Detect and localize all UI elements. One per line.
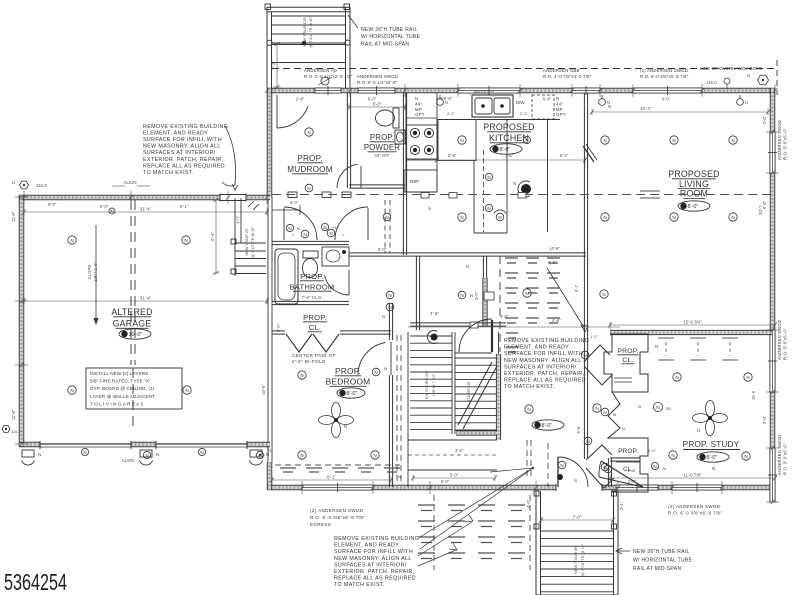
svg-text:2'-8": 2'-8" xyxy=(628,468,637,473)
svg-text:LINE OF OVERHANG ABOVE: LINE OF OVERHANG ABOVE xyxy=(700,66,762,71)
svg-text:N: N xyxy=(638,404,641,409)
svg-text:7'-0": 7'-0" xyxy=(573,515,582,520)
svg-text:D/W: D/W xyxy=(516,100,525,105)
svg-text:N: N xyxy=(307,186,310,191)
living room door-jamb marks on beam xyxy=(421,193,429,199)
svg-text:11'-8": 11'-8" xyxy=(11,211,16,222)
svg-text:8'-0": 8'-0" xyxy=(542,423,553,429)
svg-text:PROP.: PROP. xyxy=(370,133,394,142)
svg-text:(2) ANDERSEN SWGD: (2) ANDERSEN SWGD xyxy=(310,508,364,513)
svg-text:3'-0": 3'-0" xyxy=(276,323,281,332)
svg-text:N: N xyxy=(513,181,516,186)
svg-text:N: N xyxy=(415,96,418,101)
study bottom dim xyxy=(608,473,777,482)
svg-text:R.O. 6'-0 3/8"x6'-8 7/8": R.O. 6'-0 3/8"x6'-8 7/8" xyxy=(310,515,365,520)
svg-text:NEW MASONRY. ALIGN ALL: NEW MASONRY. ALIGN ALL xyxy=(143,144,221,150)
svg-text:44": 44" xyxy=(415,101,422,106)
powder room walls xyxy=(403,93,406,188)
svg-text:N: N xyxy=(385,215,388,220)
svg-text:N: N xyxy=(466,264,469,269)
svg-text:115.0: 115.0 xyxy=(706,80,717,85)
svg-text:9'-0": 9'-0" xyxy=(368,97,377,102)
svg-text:N: N xyxy=(307,130,310,135)
hall wall vertical x485 xyxy=(483,256,486,278)
svg-text:R.O. 6'-0 3/8"x6'-8 7/8": R.O. 6'-0 3/8"x6'-8 7/8" xyxy=(640,74,689,79)
svg-text:CENTER PAIR OF: CENTER PAIR OF xyxy=(292,353,336,358)
svg-text:N: N xyxy=(712,466,715,471)
svg-text:N: N xyxy=(498,215,501,220)
garage slope arrow xyxy=(95,225,97,320)
svg-text:5'-0": 5'-0" xyxy=(373,102,382,107)
svg-text:31'-4": 31'-4" xyxy=(140,296,152,301)
mudroom right wall xyxy=(347,93,350,188)
svg-text:CL.: CL. xyxy=(309,323,321,332)
svg-text:2'-6" BI-FOLD: 2'-6" BI-FOLD xyxy=(292,359,326,364)
svg-text:NEW MASONRY. ALIGN ALL: NEW MASONRY. ALIGN ALL xyxy=(334,556,412,562)
stair top door arc xyxy=(459,319,492,352)
svg-text:N: N xyxy=(603,410,606,415)
svg-text:GYP. BOARD @ CEILING, (1): GYP. BOARD @ CEILING, (1) xyxy=(90,386,155,391)
svg-text:REPLACE ALL AS REQUIRED: REPLACE ALL AS REQUIRED xyxy=(334,576,416,582)
svg-text:N: N xyxy=(731,215,734,220)
house bottom exterior wall xyxy=(267,485,775,490)
garage top wall opening at step xyxy=(220,194,246,202)
svg-text:N: N xyxy=(460,293,463,298)
svg-text:8'-7: 8'-7 xyxy=(574,284,579,292)
svg-text:KIT STAIRS DN: KIT STAIRS DN xyxy=(424,371,429,399)
svg-text:N: N xyxy=(268,448,271,453)
svg-text:N: N xyxy=(622,426,625,431)
patio removal dashed grid xyxy=(418,505,525,559)
svg-text:8'-0": 8'-0" xyxy=(347,391,358,397)
house right exterior wall xyxy=(770,88,775,490)
svg-text:N: N xyxy=(70,238,73,243)
living room left wall xyxy=(584,93,587,459)
svg-text:N: N xyxy=(323,225,326,230)
study top wall xyxy=(610,330,772,334)
kitchen fan/light xyxy=(521,184,531,194)
stairwell right run with diagonal xyxy=(498,332,500,354)
svg-text:N: N xyxy=(556,96,559,101)
svg-text:N: N xyxy=(388,305,391,310)
study closet 2 xyxy=(612,438,648,492)
annotation: remove existing (bottom) xyxy=(334,536,419,588)
window: rear hall bottom xyxy=(616,483,658,492)
svg-text:@ 7 3/4" TR @ 10": @ 7 3/4" TR @ 10" xyxy=(309,16,313,48)
svg-text:44" AFF: 44" AFF xyxy=(375,153,390,158)
svg-text:ANDERSEN SWGD: ANDERSEN SWGD xyxy=(777,435,782,475)
svg-text:ANDERSEN SWGD: ANDERSEN SWGD xyxy=(777,320,782,360)
svg-text:4'-0": 4'-0" xyxy=(436,97,445,102)
study window note bottom xyxy=(668,504,722,515)
svg-text:1'-0": 1'-0" xyxy=(590,334,599,339)
svg-text:N: N xyxy=(731,138,734,143)
vertical window labels right side xyxy=(777,120,788,160)
svg-text:N: N xyxy=(460,215,463,220)
garage doorway posts xyxy=(22,450,34,457)
toilet bath xyxy=(303,259,318,278)
svg-text:6'-0": 6'-0" xyxy=(662,97,671,102)
bedroom label xyxy=(326,366,371,387)
svg-text:TO MATCH EXIST.: TO MATCH EXIST. xyxy=(143,170,194,176)
rear entry door 1 (hinge left) xyxy=(558,457,588,487)
mirror marks above bath xyxy=(286,224,293,231)
svg-text:N: N xyxy=(607,100,610,105)
svg-text:N: N xyxy=(656,405,659,410)
svg-text:4'-0": 4'-0" xyxy=(235,215,240,224)
bifold doors xyxy=(286,334,312,352)
svg-text:REMOVE EXISTING BUILDING: REMOVE EXISTING BUILDING xyxy=(334,536,419,542)
svg-text:MP: MP xyxy=(415,107,422,112)
svg-text:N: N xyxy=(445,100,448,105)
svg-text:N: N xyxy=(560,463,563,468)
svg-text:N: N xyxy=(603,215,606,220)
window schedule texts above top wall xyxy=(304,68,353,79)
svg-text:4'-6": 4'-6" xyxy=(430,311,439,316)
kitchen counter edge left xyxy=(405,93,407,192)
svg-text:LAYER @ WALLS ADJACENT: LAYER @ WALLS ADJACENT xyxy=(90,394,155,399)
svg-text:5'-8": 5'-8" xyxy=(543,97,552,102)
svg-text:ELEMENT, AND READY: ELEMENT, AND READY xyxy=(504,345,569,351)
svg-text:REPLACE ALL AS REQUIRED: REPLACE ALL AS REQUIRED xyxy=(504,378,586,384)
svg-text:NEW 36"H TUBE RAIL: NEW 36"H TUBE RAIL xyxy=(633,549,690,555)
beam junction boxes xyxy=(288,192,297,198)
bathroom top wall xyxy=(272,241,349,244)
svg-text:W/ HORIZONTAL TUBE: W/ HORIZONTAL TUBE xyxy=(361,34,421,40)
bedroom door arc xyxy=(358,343,385,376)
svg-text:N: N xyxy=(746,375,749,380)
window: living room top xyxy=(633,86,702,95)
svg-text:N: N xyxy=(145,453,148,458)
svg-text:15'-6": 15'-6" xyxy=(261,384,266,395)
annotation: remove existing (center) xyxy=(504,338,589,390)
kitchen dim row xyxy=(435,157,587,164)
svg-text:@ 7 1/2" TR @ 10": @ 7 1/2" TR @ 10" xyxy=(251,226,255,258)
living top wall dim xyxy=(590,109,770,116)
svg-text:PROP.: PROP. xyxy=(297,154,322,163)
svg-text:7'-6" CLG.: 7'-6" CLG. xyxy=(301,295,322,300)
svg-text:KITCHEN: KITCHEN xyxy=(489,133,529,143)
svg-text:RAIL AT MID-SPAN: RAIL AT MID-SPAN xyxy=(633,566,681,572)
svg-text:6'-0": 6'-0" xyxy=(648,448,657,453)
svg-text:8'-0": 8'-0" xyxy=(707,455,718,461)
house top exterior wall xyxy=(267,88,775,93)
svg-text:ELEMENT, AND READY: ELEMENT, AND READY xyxy=(143,131,208,137)
svg-text:N: N xyxy=(583,353,586,358)
powder door arc xyxy=(337,164,358,188)
living room N circles xyxy=(601,136,609,144)
svg-text:N: N xyxy=(83,450,86,455)
leaders note C xyxy=(420,468,533,537)
leader from egress window to note junction xyxy=(490,468,533,472)
svg-text:N: N xyxy=(574,478,577,483)
svg-text:N: N xyxy=(697,428,700,433)
garage label xyxy=(111,307,152,329)
svg-text:EXTERIOR. PATCH, REPAIR,: EXTERIOR. PATCH, REPAIR, xyxy=(334,569,415,575)
mudroom label xyxy=(287,154,333,174)
svg-text:REMOVE EXISTING BUILDING: REMOVE EXISTING BUILDING xyxy=(143,124,228,130)
svg-text:4'-6": 4'-6" xyxy=(552,318,561,323)
svg-text:N: N xyxy=(184,238,187,243)
svg-text:SLOPE: SLOPE xyxy=(87,265,92,280)
svg-text:@ 7 7/8" TR @ 10": @ 7 7/8" TR @ 10" xyxy=(581,543,585,576)
svg-text:R.O. 3'-0"x5'-0": R.O. 3'-0"x5'-0" xyxy=(783,443,788,475)
garage bottom wall segment right xyxy=(247,442,270,447)
svg-text:1/8" / 1'-0": 1/8" / 1'-0" xyxy=(93,262,98,282)
svg-text:OPT: OPT xyxy=(415,112,425,117)
hex marker garage bottom-left xyxy=(2,426,10,433)
svg-text:9'-0": 9'-0" xyxy=(48,202,57,207)
svg-text:ANDERSEN: ANDERSEN xyxy=(474,90,494,94)
svg-text:TO MATCH EXIST.: TO MATCH EXIST. xyxy=(504,384,555,390)
window: study right lower xyxy=(768,448,777,502)
svg-text:2'-8": 2'-8" xyxy=(296,97,305,102)
svg-text:8'-1": 8'-1" xyxy=(180,204,189,209)
svg-text:115.0: 115.0 xyxy=(11,429,21,434)
svg-text:9'-6": 9'-6" xyxy=(548,260,557,265)
svg-text:11'-8": 11'-8" xyxy=(11,409,16,420)
bathroom label xyxy=(290,272,335,291)
flag circle above mudroom window xyxy=(321,77,329,85)
svg-text:N: N xyxy=(70,388,73,393)
svg-text:TO MATCH EXIST.: TO MATCH EXIST. xyxy=(334,582,385,588)
svg-text:5'-4": 5'-4" xyxy=(560,153,569,158)
window: study bottom xyxy=(672,483,722,492)
svg-text:ANDERSEN GBB: ANDERSEN GBB xyxy=(543,68,580,73)
hall wall vertical x418 xyxy=(416,256,419,330)
svg-text:3'-0": 3'-0" xyxy=(762,415,767,424)
top deck stair structure xyxy=(265,4,350,89)
svg-text:T O L I V I N G A R E A S: T O L I V I N G A R E A S xyxy=(90,401,144,406)
svg-text:R.O. 6'-0 3/8"x6'-8 7/8": R.O. 6'-0 3/8"x6'-8 7/8" xyxy=(668,510,722,515)
svg-text:N: N xyxy=(672,138,675,143)
svg-text:N: N xyxy=(374,370,377,375)
kitchen range counter xyxy=(406,125,437,159)
svg-text:REPLACE ALL AS REQUIRED: REPLACE ALL AS REQUIRED xyxy=(143,163,225,169)
kitchen sink xyxy=(472,95,513,117)
svg-text:N: N xyxy=(110,209,113,214)
garage left wall ticks xyxy=(15,196,28,198)
kitchen label xyxy=(483,122,534,143)
egress window note xyxy=(310,508,365,527)
hall double doors above bathroom xyxy=(284,207,317,240)
svg-text:RAIL AT MID-SPAN: RAIL AT MID-SPAN xyxy=(361,41,409,47)
svg-text:LIVING: LIVING xyxy=(679,179,709,189)
svg-text:3'-0": 3'-0" xyxy=(474,291,479,300)
svg-text:MP: MP xyxy=(556,107,563,112)
svg-text:R.O. 9'-0 1/4"x6'-8": R.O. 9'-0 1/4"x6'-8" xyxy=(357,80,398,85)
window: powder top xyxy=(358,86,395,95)
garage top exterior wall xyxy=(19,195,270,200)
bedroom N circles xyxy=(298,371,306,379)
svg-text:2'-8": 2'-8" xyxy=(628,479,637,484)
study zigzag wall xyxy=(608,392,620,438)
svg-text:44": 44" xyxy=(556,101,563,106)
svg-text:ANDERSEN SWGD: ANDERSEN SWGD xyxy=(777,120,782,160)
svg-text:W/ HORIZONTAL TUBE: W/ HORIZONTAL TUBE xyxy=(633,558,693,564)
svg-text:ANDERSEN AD: ANDERSEN AD xyxy=(304,68,337,73)
leader from note A xyxy=(225,126,236,185)
svg-text:2'-0": 2'-0" xyxy=(520,111,528,116)
wall junction ticks top xyxy=(266,84,268,97)
closet bottom wall with bifold opening xyxy=(272,331,285,334)
svg-text:PROP. STUDY: PROP. STUDY xyxy=(683,440,740,449)
svg-text:N: N xyxy=(655,344,658,349)
bedroom-stair gap dashed (existing wall removed) xyxy=(396,335,398,483)
svg-text:SURFACES AT INTERIOR/: SURFACES AT INTERIOR/ xyxy=(504,364,577,370)
svg-text:N: N xyxy=(653,464,656,469)
svg-text:N: N xyxy=(525,291,528,296)
garage mid dim line xyxy=(22,296,269,305)
svg-text:3'-6": 3'-6" xyxy=(455,448,464,453)
svg-text:N: N xyxy=(303,232,306,237)
svg-text:N: N xyxy=(373,453,376,458)
deck treads xyxy=(541,531,614,592)
svg-text:31'-4": 31'-4" xyxy=(140,207,152,212)
house left exterior wall upper xyxy=(267,88,272,197)
kitchen peninsula counter xyxy=(438,120,476,161)
svg-text:6'-4": 6'-4" xyxy=(210,232,215,241)
fire rating note box xyxy=(86,368,182,409)
garage interior dim line top xyxy=(22,207,269,216)
svg-text:5'-0": 5'-0" xyxy=(100,204,109,209)
svg-text:N: N xyxy=(671,453,674,458)
garage door panel 1 xyxy=(40,443,131,445)
svg-text:(2) ANDERSEN SWGD: (2) ANDERSEN SWGD xyxy=(668,504,720,509)
svg-text:R.O. 2'-8 1/2"x2'-8 1/2": R.O. 2'-8 1/2"x2'-8 1/2" xyxy=(304,74,353,79)
svg-text:N: N xyxy=(745,100,748,105)
svg-text:5'-0": 5'-0" xyxy=(378,247,387,252)
window: kitchen sink xyxy=(458,86,520,95)
study label xyxy=(683,440,740,450)
window: living right xyxy=(768,132,777,173)
svg-text:BEDROOM: BEDROOM xyxy=(326,377,371,387)
study fan xyxy=(693,401,728,436)
svg-text:N: N xyxy=(675,375,678,380)
svg-text:PROP.: PROP. xyxy=(335,366,361,376)
svg-text:N: N xyxy=(747,73,750,78)
svg-text:PROP.: PROP. xyxy=(617,348,638,355)
powder toilet xyxy=(376,110,395,126)
svg-text:8'-0": 8'-0" xyxy=(688,204,699,210)
study closet1 angled doors xyxy=(584,345,610,362)
svg-text:6'-0": 6'-0" xyxy=(290,200,299,205)
svg-text:N: N xyxy=(382,314,385,319)
kitchen opt texts xyxy=(415,96,425,117)
garage top wall ticks xyxy=(23,191,25,204)
svg-text:INSTALL NEW (2) LAYERS: INSTALL NEW (2) LAYERS xyxy=(90,371,148,376)
svg-text:N: N xyxy=(744,454,747,459)
deck dim xyxy=(539,515,615,524)
stair bottom landing xyxy=(456,431,497,435)
svg-text:N: N xyxy=(388,293,391,298)
bifold note xyxy=(292,353,336,364)
overhang dashed line top xyxy=(272,68,775,70)
svg-text:N: N xyxy=(297,226,300,231)
svg-text:N: N xyxy=(428,206,431,211)
svg-text:NEW STAIR 8R: NEW STAIR 8R xyxy=(573,546,578,574)
svg-text:NEW MASONRY. ALIGN ALL: NEW MASONRY. ALIGN ALL xyxy=(504,358,582,364)
svg-text:PROP.: PROP. xyxy=(618,448,638,455)
svg-text:ROOM: ROOM xyxy=(680,189,708,199)
window: study right upper xyxy=(768,330,777,392)
svg-text:N: N xyxy=(470,293,473,298)
garage bottom center dashed xyxy=(132,368,134,432)
mudroom entry door arc xyxy=(276,95,278,128)
svg-text:3'-0": 3'-0" xyxy=(762,115,767,124)
svg-text:EXTERIOR. PATCH, REPAIR,: EXTERIOR. PATCH, REPAIR, xyxy=(143,157,224,163)
kitchen REF xyxy=(404,170,437,192)
garage center dashed joint xyxy=(130,200,132,365)
wall y323 hall bottom xyxy=(410,323,506,326)
svg-text:R.O. 4'-0 7/8"x4'-0 7/8": R.O. 4'-0 7/8"x4'-0 7/8" xyxy=(543,74,592,79)
svg-text:N: N xyxy=(398,474,401,479)
svg-text:EXTERIOR. PATCH, REPAIR,: EXTERIOR. PATCH, REPAIR, xyxy=(504,371,585,377)
svg-text:5/8" FIRE RATED, TYPE "X": 5/8" FIRE RATED, TYPE "X" xyxy=(90,379,151,384)
svg-text:N: N xyxy=(185,388,188,393)
svg-text:POWDER: POWDER xyxy=(364,143,400,152)
bottom deck rails xyxy=(535,491,537,595)
living room label xyxy=(668,169,719,199)
mudroom closet lines xyxy=(272,209,300,211)
svg-text:+42": +42" xyxy=(332,226,340,230)
closet label xyxy=(303,313,327,332)
garage bottom wall segment mid xyxy=(131,442,156,447)
living room beam dashed xyxy=(272,194,770,196)
svg-text:N: N xyxy=(300,453,303,458)
stairwell left run xyxy=(407,332,409,470)
garage door panel 2 xyxy=(156,443,247,445)
powder dim xyxy=(347,102,407,111)
tube rail note (bottom) xyxy=(633,549,693,572)
bathroom door arc xyxy=(325,275,350,295)
svg-text:N: N xyxy=(12,180,15,185)
svg-text:PROP.: PROP. xyxy=(300,272,324,281)
svg-text:R.O. 3'-0"x5'-0": R.O. 3'-0"x5'-0" xyxy=(783,328,788,360)
svg-text:N: N xyxy=(200,450,203,455)
svg-text:SD: SD xyxy=(666,407,671,411)
svg-text:N: N xyxy=(300,373,303,378)
tube rail note (top) xyxy=(361,27,421,47)
svg-text:REMOVE EXISTING BUILDING: REMOVE EXISTING BUILDING xyxy=(504,338,589,344)
svg-text:N: N xyxy=(527,407,530,412)
svg-text:EX STAIRS UP: EX STAIRS UP xyxy=(466,381,471,409)
svg-text:PROPOSED: PROPOSED xyxy=(483,122,534,132)
kitchen N circles xyxy=(458,136,466,144)
svg-text:N: N xyxy=(288,226,291,231)
svg-text:ALIGN: ALIGN xyxy=(122,458,135,463)
window: mudroom top xyxy=(315,86,341,95)
svg-text:N: N xyxy=(384,366,387,371)
svg-text:ALTERED: ALTERED xyxy=(111,307,152,317)
svg-text:OPT: OPT xyxy=(556,112,566,117)
mudroom N xyxy=(305,128,313,136)
bedroom bottom dashed remove row xyxy=(280,468,400,472)
svg-text:N: N xyxy=(329,231,332,236)
svg-text:8'-1": 8'-1" xyxy=(327,475,336,480)
svg-text:N: N xyxy=(613,412,616,417)
svg-text:SURFACE FOR INFILL WITH: SURFACE FOR INFILL WITH xyxy=(143,137,222,143)
svg-text:PROP.: PROP. xyxy=(303,313,327,322)
garage left exterior wall xyxy=(19,195,24,447)
rear hall wall xyxy=(608,458,611,487)
svg-text:12R @ 7 3/4": 12R @ 7 3/4" xyxy=(432,373,436,396)
hall wall powder-to-midwall xyxy=(403,188,406,255)
window flags top wall xyxy=(437,99,444,106)
door opening: rear entry xyxy=(556,484,602,491)
window: living small xyxy=(572,86,600,95)
svg-text:11'-0 7/8": 11'-0 7/8" xyxy=(683,473,702,478)
